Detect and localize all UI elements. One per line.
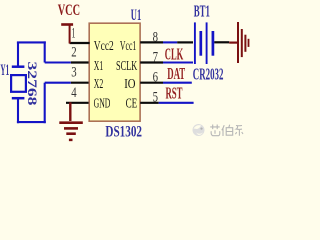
- svg-text:DS1302: DS1302: [105, 123, 142, 140]
- svg-text:2: 2: [71, 45, 76, 61]
- svg-text:SCLK: SCLK: [116, 59, 137, 74]
- svg-text:VCC: VCC: [58, 2, 80, 19]
- svg-text:RST: RST: [166, 84, 183, 103]
- svg-text:5: 5: [153, 89, 158, 105]
- svg-text:32768: 32768: [25, 62, 40, 107]
- svg-text:BT1: BT1: [194, 2, 210, 21]
- svg-text:X1: X1: [94, 59, 104, 74]
- svg-text:GND: GND: [94, 96, 111, 111]
- svg-text:6: 6: [153, 70, 159, 86]
- svg-text:CR2032: CR2032: [193, 65, 224, 84]
- svg-text:CLK: CLK: [165, 44, 184, 63]
- svg-text:U1: U1: [131, 7, 141, 24]
- svg-text:Vcc1: Vcc1: [120, 39, 136, 54]
- svg-text:1: 1: [72, 25, 76, 41]
- svg-text:Vcc2: Vcc2: [94, 39, 114, 54]
- svg-text:4: 4: [71, 85, 77, 101]
- svg-text:DAT: DAT: [167, 64, 185, 83]
- svg-text:X2: X2: [94, 77, 104, 92]
- svg-text:3: 3: [71, 65, 76, 81]
- svg-text:Y1: Y1: [0, 62, 9, 79]
- svg-text:CE: CE: [126, 96, 138, 111]
- svg-text:7: 7: [153, 49, 159, 65]
- svg-text:IO: IO: [124, 77, 135, 92]
- svg-text:8: 8: [153, 30, 158, 46]
